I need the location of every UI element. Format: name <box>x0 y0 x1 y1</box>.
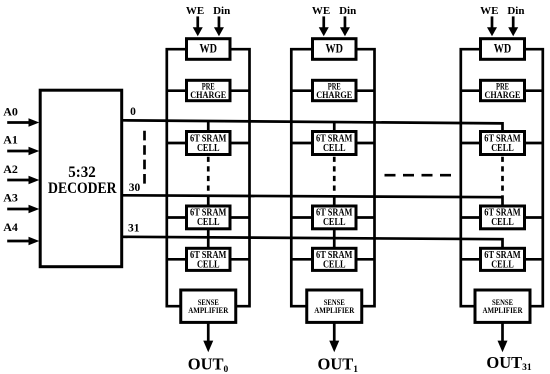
6T SRAM cell row 0 column 1 <box>187 132 231 155</box>
wire Din input arrow column 2 <box>340 16 350 36</box>
wire bit line BL column 2 (left rail with taps) <box>290 49 314 306</box>
svg-text:CELL: CELL <box>197 217 220 228</box>
svg-text:0: 0 <box>130 106 136 118</box>
label output OUT1 column 2 <box>318 355 359 374</box>
label input A4 <box>3 220 18 234</box>
svg-text:CELL: CELL <box>491 259 514 270</box>
wire cell rows 1..29 continuation (dashed) column 2 <box>333 157 336 195</box>
svg-text:31: 31 <box>128 222 140 234</box>
node row 30 (word line 30 label) <box>129 182 141 194</box>
svg-text:A2: A2 <box>3 162 18 176</box>
label input A1 <box>3 133 18 147</box>
svg-text:CELL: CELL <box>323 143 346 154</box>
wire bit line BL column 1 (left rail with taps) <box>166 49 189 306</box>
svg-text:WE: WE <box>480 5 498 17</box>
wire input A0 (arrow into decoder pin) <box>7 118 39 126</box>
6T SRAM cell row 30 column 3 <box>481 206 525 229</box>
svg-text:CELL: CELL <box>197 259 220 270</box>
svg-text:AMPLIFIER: AMPLIFIER <box>188 306 228 315</box>
wire WL30 tap to cell row 30 column 1 <box>207 195 210 208</box>
svg-text:30: 30 <box>129 182 141 194</box>
label input A3 <box>3 190 18 204</box>
precharge circuit PC column 2 <box>313 80 357 100</box>
6T SRAM cell row 31 column 2 <box>313 248 357 270</box>
svg-text:CELL: CELL <box>491 143 514 154</box>
6T SRAM cell row 0 column 3 <box>481 132 525 155</box>
svg-text:A4: A4 <box>3 220 18 234</box>
6T SRAM cell row 31 column 3 <box>481 248 525 270</box>
wire cell rows 1..29 continuation (dashed) column 1 <box>207 157 210 195</box>
wire bit line BLB column 2 (right rail with taps) <box>354 49 376 306</box>
svg-text:AMPLIFIER: AMPLIFIER <box>483 306 523 315</box>
precharge circuit PC column 1 <box>187 80 231 100</box>
write driver WD column 2 <box>313 39 357 60</box>
node row 0 (word line 0 label) <box>130 106 136 118</box>
precharge circuit PC column 3 <box>481 80 525 100</box>
wire bit line BLB column 1 (right rail with taps) <box>228 49 251 306</box>
label Din (data input) column 1 <box>213 5 230 17</box>
svg-text:AMPLIFIER: AMPLIFIER <box>314 306 354 315</box>
wire WL0 tap to cell row 0 column 2 <box>333 122 336 134</box>
svg-text:WD: WD <box>326 42 344 56</box>
wire WE input arrow column 3 <box>487 16 497 36</box>
wire columns 2..30 continuation (horizontal dashed ellipsis between columns) <box>385 174 452 177</box>
svg-text:CHARGE: CHARGE <box>485 90 521 100</box>
svg-text:DECODER: DECODER <box>48 178 117 197</box>
wire bit line BL column 3 (left rail with taps) <box>460 49 483 306</box>
wire WL30 tap to cell row 30 column 2 <box>333 196 336 209</box>
node row 31 (word line 31 label) <box>128 222 140 234</box>
wire cell rows 1..29 continuation (dashed) column 3 <box>501 157 504 196</box>
label input A2 <box>3 162 18 176</box>
wire WE input arrow column 1 <box>193 16 203 36</box>
wire Din input arrow column 1 <box>214 16 224 36</box>
svg-text:CELL: CELL <box>491 217 514 228</box>
6T SRAM cell row 30 column 1 <box>187 206 231 229</box>
wire rows 1..29 continuation (vertical dashed word-line ellipsis) <box>143 131 146 185</box>
wire SA output arrow column 3 <box>498 321 508 352</box>
label Din (data input) column 3 <box>507 5 524 17</box>
svg-text:A1: A1 <box>3 133 18 147</box>
svg-text:WD: WD <box>200 42 218 56</box>
wire cell row 30 to WL31 / cell row 31 column 1 <box>207 228 210 251</box>
wire word line WL0 (row 0, decoder to column 31 cell) <box>122 120 503 133</box>
wire input A3 (arrow into decoder pin) <box>7 205 39 213</box>
label Din (data input) column 2 <box>339 5 356 17</box>
svg-text:Din: Din <box>339 5 356 17</box>
wire input A2 (arrow into decoder pin) <box>7 176 39 184</box>
write driver WD column 3 <box>481 39 525 60</box>
svg-text:WE: WE <box>312 5 330 17</box>
svg-text:OUT0: OUT0 <box>188 355 229 374</box>
wire word line WL30 (row 30) <box>122 195 503 208</box>
wire WE input arrow column 2 <box>319 16 329 36</box>
wire SA output arrow column 2 <box>329 321 339 352</box>
wire SA output arrow column 1 <box>203 321 213 352</box>
svg-text:WE: WE <box>186 5 204 17</box>
label WE (write enable) column 2 <box>312 5 330 17</box>
label output OUT0 column 1 <box>188 355 229 374</box>
svg-text:A0: A0 <box>3 105 18 119</box>
label WE (write enable) column 1 <box>186 5 204 17</box>
svg-text:Din: Din <box>507 5 524 17</box>
wire input A4 (arrow into decoder pin) <box>7 237 39 245</box>
svg-text:A3: A3 <box>3 190 18 204</box>
wire cell row 30 to WL31 / cell row 31 column 2 <box>333 228 336 251</box>
wire WL0 tap to cell row 0 column 1 <box>207 121 210 134</box>
svg-text:CHARGE: CHARGE <box>316 90 352 100</box>
svg-text:CHARGE: CHARGE <box>190 90 226 100</box>
wire Din input arrow column 3 <box>508 16 518 36</box>
decoder U1 (5:32 row decoder) <box>40 90 122 267</box>
write driver WD column 1 <box>187 39 231 60</box>
sense amplifier SA column 2 <box>307 290 362 322</box>
svg-text:WD: WD <box>494 42 512 56</box>
6T SRAM cell row 0 column 2 <box>313 132 357 155</box>
svg-text:OUT1: OUT1 <box>318 355 359 374</box>
svg-text:CELL: CELL <box>197 143 220 154</box>
6T SRAM cell row 31 column 1 <box>187 248 231 270</box>
svg-text:CELL: CELL <box>323 259 346 270</box>
label WE (write enable) column 3 <box>480 5 498 17</box>
6T SRAM cell row 30 column 2 <box>313 206 357 229</box>
svg-text:CELL: CELL <box>323 217 346 228</box>
sense amplifier SA column 3 <box>475 290 530 322</box>
label input A0 <box>3 105 18 119</box>
svg-text:Din: Din <box>213 5 230 17</box>
wire word line WL31 (row 31) <box>122 237 503 251</box>
label output OUT31 column 3 <box>486 353 532 373</box>
wire bit line BLB column 3 (right rail with taps) <box>523 49 544 306</box>
wire input A1 (arrow into decoder pin) <box>7 147 39 155</box>
sense amplifier SA column 1 <box>181 290 236 322</box>
